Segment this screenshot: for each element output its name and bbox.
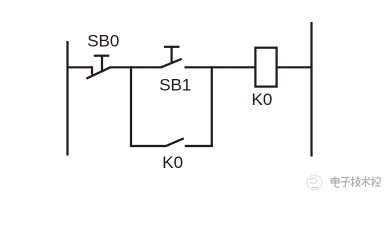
pushbutton SB1 actuator stem [171, 47, 173, 64]
contact K0 blade (NO self-holding) [166, 138, 184, 146]
coil K0 rectangle [255, 48, 276, 87]
right power rail [310, 22, 312, 157]
wire: lower branch left segment [130, 145, 166, 147]
pushbutton SB1 actuator cap [164, 46, 180, 48]
wire: coil K0 to right rail [277, 66, 312, 68]
wire: SB0 to SB1 through node A [110, 66, 162, 68]
node B: branch junction right vertical wire [211, 66, 213, 146]
pushbutton SB0 blade (NC) [86, 67, 110, 78]
wire: lower branch right segment [185, 145, 213, 147]
svg-text:K0: K0 [252, 90, 273, 109]
svg-text:SB1: SB1 [159, 75, 191, 94]
pushbutton SB1 blade (NO) [161, 59, 181, 67]
wire: SB1 to coil K0 through node B [185, 66, 256, 68]
node A: branch junction left vertical wire [130, 66, 132, 146]
wire: left rail to SB0 [68, 66, 93, 68]
pushbutton SB0 actuator stem [101, 56, 103, 72]
watermark logo circle [307, 175, 322, 190]
left power rail [66, 41, 68, 156]
svg-text:K0: K0 [162, 153, 183, 172]
pushbutton SB0 actuator cap [94, 55, 110, 57]
pushbutton SB0 fixed contact tick [91, 66, 93, 74]
svg-text:SB0: SB0 [87, 31, 119, 50]
watermark text 电子技术控 (faux strokes) [331, 176, 380, 187]
